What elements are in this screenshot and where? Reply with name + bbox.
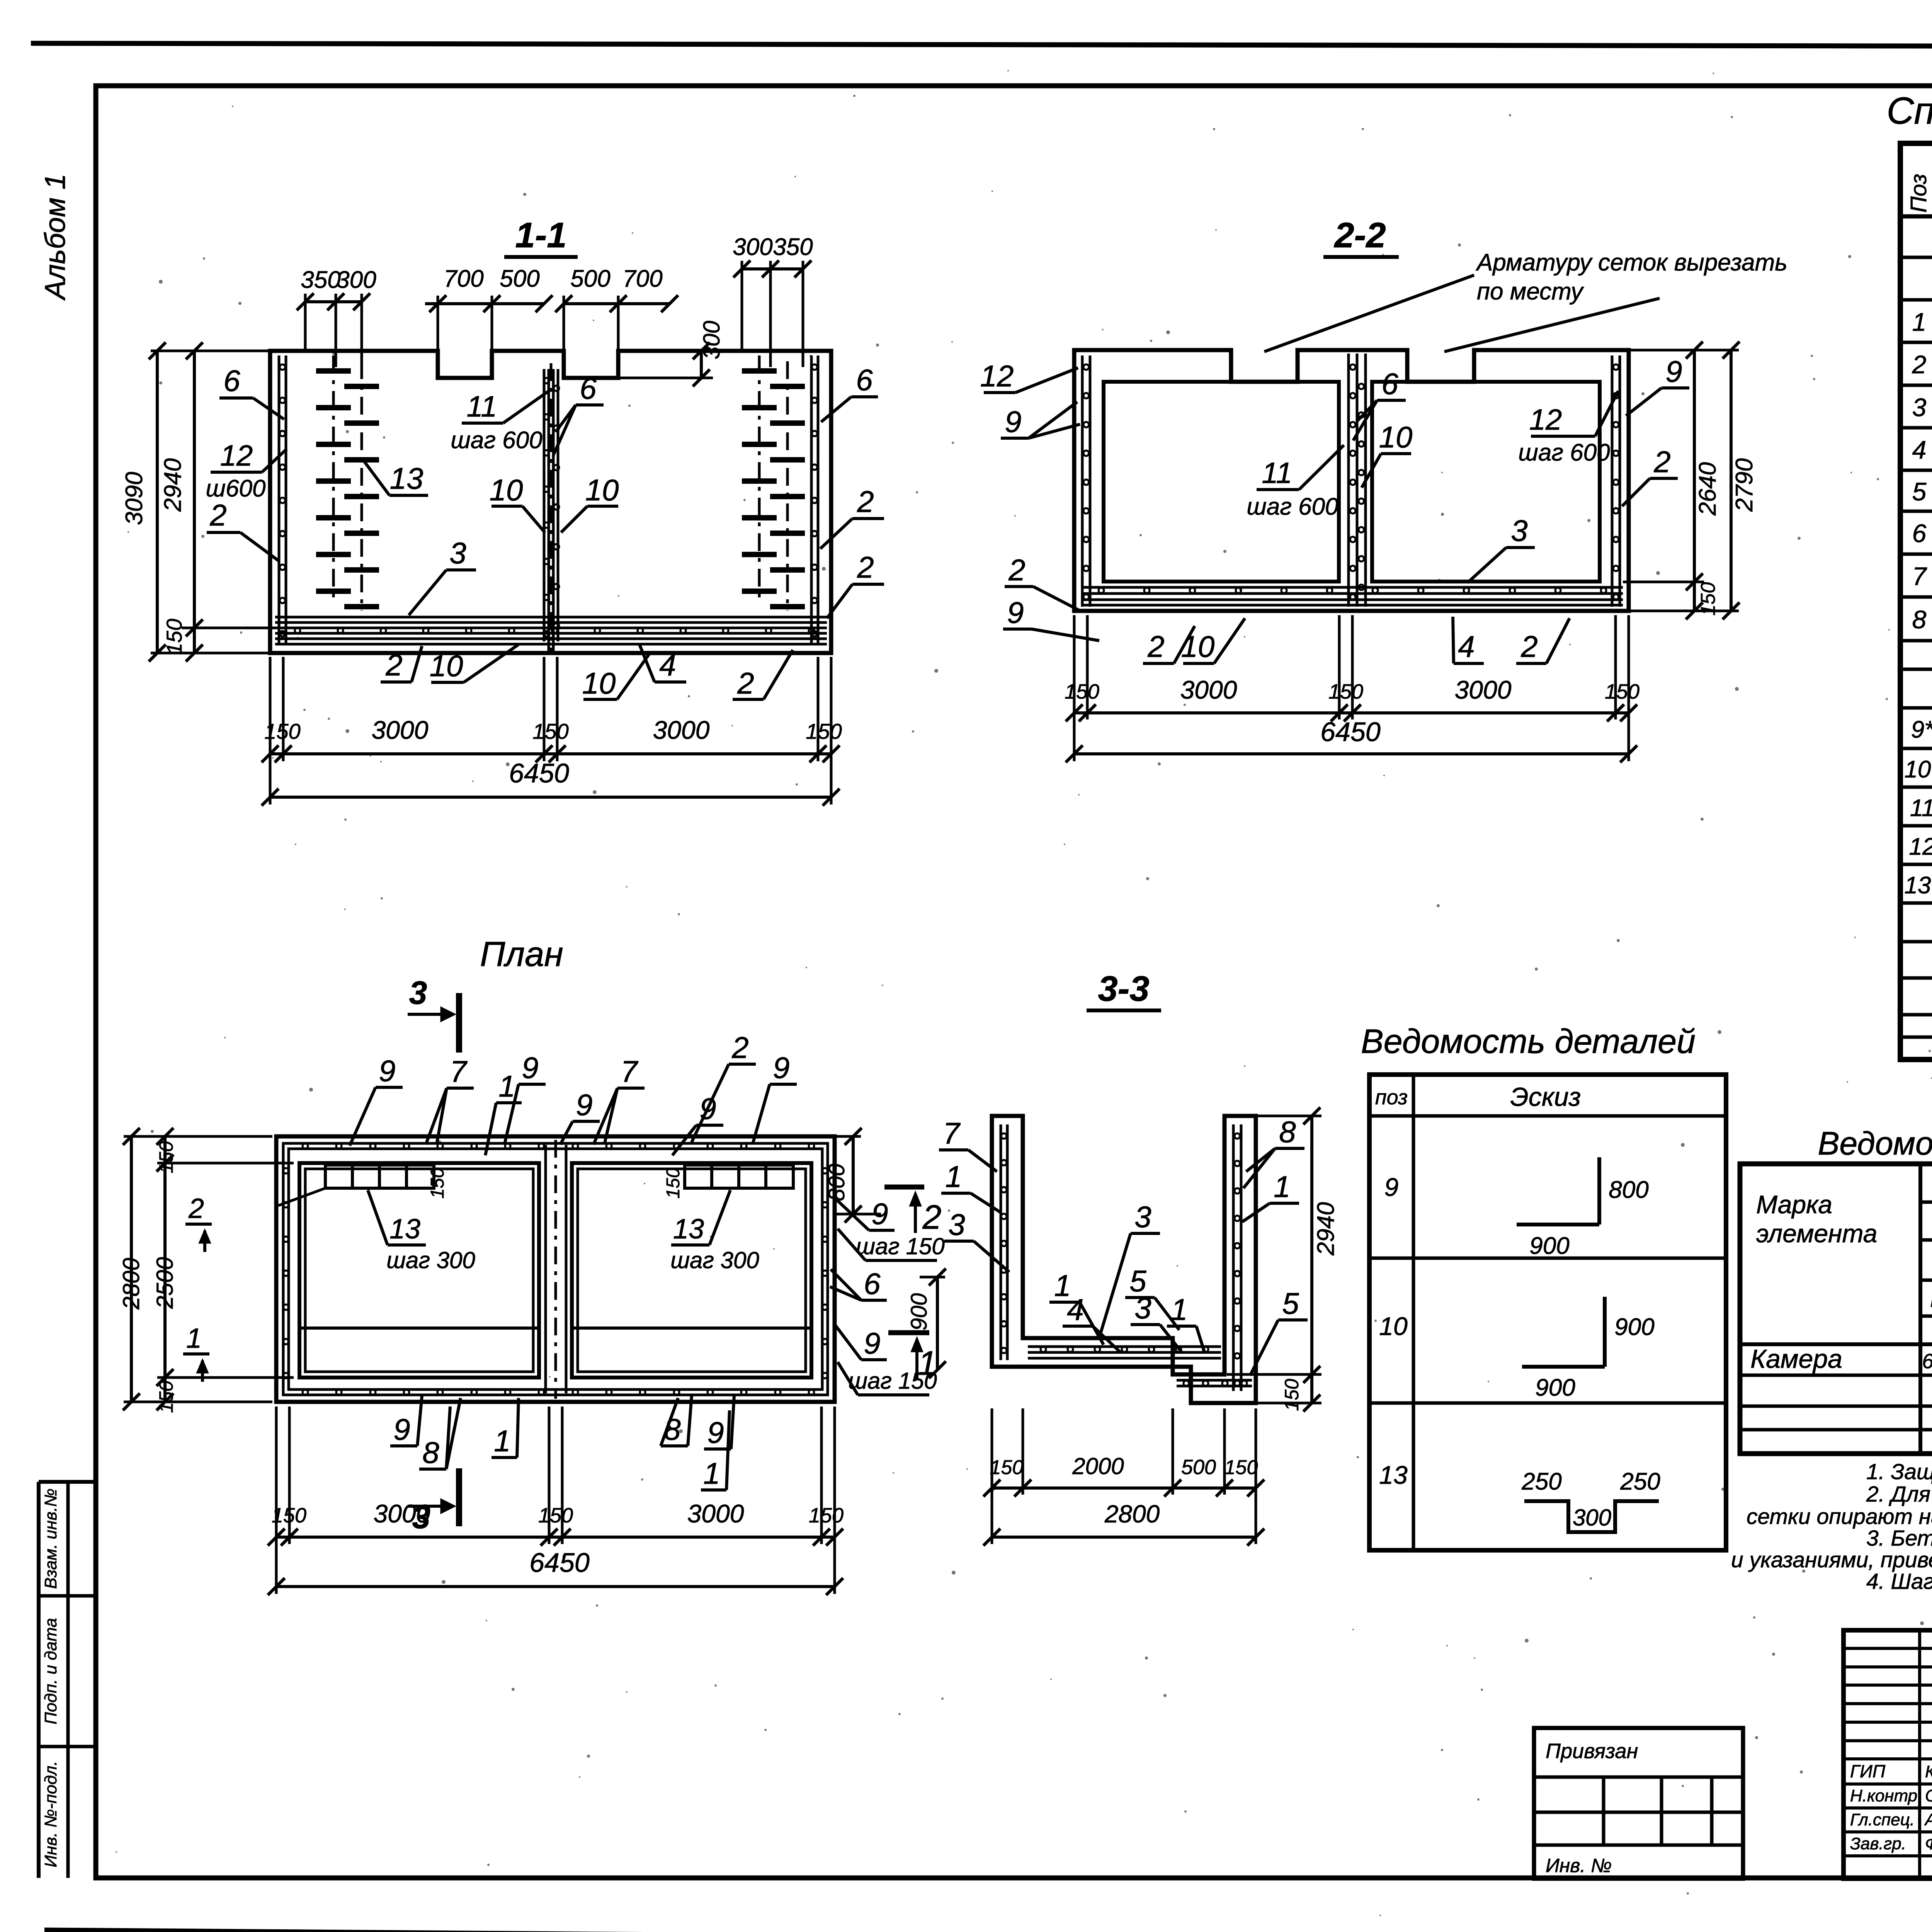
privyazan label [1546,1740,1638,1763]
specification table grid [1900,143,1932,1060]
svg-text:250: 250 [1521,1468,1561,1495]
svg-text:2: 2 [857,485,874,519]
callout 1-1 6 mid [553,371,604,455]
section 1-1 title [504,216,578,257]
svg-text:Взам. инв.№: Взам. инв.№ [41,1488,60,1589]
svg-text:2: 2 [1147,629,1164,663]
dim 2-2 bottom [1065,615,1639,762]
plan section3 marker top [408,975,459,1053]
svg-text:3: 3 [1511,514,1527,548]
callout 2-2 11 shag600 [1247,445,1344,520]
spec detail row 13* [1904,872,1932,899]
svg-text:7: 7 [621,1054,638,1088]
svg-text:5: 5 [1912,477,1927,506]
svg-text:300: 300 [733,234,772,260]
svg-text:6450: 6450 [509,758,569,788]
signature table grid [1844,1630,1932,1879]
plan marker 2 left [185,1193,212,1252]
callout 1-1 4 bottom [639,645,686,682]
svg-text:900: 900 [906,1293,932,1331]
svg-text:250: 250 [1620,1468,1660,1495]
callout 3-3 4 [1063,1293,1121,1352]
dim 1-1 left verticals [121,342,275,662]
callout 3-3 1 bot1 [1049,1269,1104,1345]
svg-text:6: 6 [856,363,873,397]
callout 3-3 5 mid [1125,1264,1179,1330]
svg-text:шаг 600: шаг 600 [1247,493,1338,520]
svg-text:Н.контр: Н.контр [1850,1786,1917,1805]
svg-text:2: 2 [1653,445,1670,479]
steel table grid [1740,1164,1932,1454]
spec item row 5 [1912,474,1932,507]
svg-text:12: 12 [1529,403,1562,436]
sig row Nkontr [1850,1786,1932,1805]
plan right dim 800 [824,1128,881,1223]
svg-text:9: 9 [707,1415,724,1449]
svg-text:10: 10 [582,666,616,700]
svg-text:2790: 2790 [1731,458,1758,512]
svg-text:2: 2 [209,498,226,532]
svg-text:Камера: Камера [1750,1344,1842,1374]
svg-text:300: 300 [336,267,376,293]
section 2-2 title [1323,216,1399,257]
callout plan 9 b [505,1051,546,1144]
plan chamber1 water line [299,1327,539,1330]
svg-text:4. Шаг стержней, кроме ого: 4. Шаг стержней, кроме оговоренных, 200м… [1866,1569,1932,1594]
svg-text:150: 150 [155,1141,177,1173]
dim plan bottom [268,1406,844,1595]
svg-text:300: 300 [1573,1505,1611,1531]
svg-text:2: 2 [922,1198,942,1236]
svg-text:7: 7 [450,1054,468,1088]
svg-text:шаг 150: шаг 150 [848,1368,937,1394]
svg-text:Арматуру сеток вырезать: Арматуру сеток вырезать [1475,249,1787,276]
svg-text:1: 1 [1912,308,1927,336]
svg-text:10: 10 [1379,1312,1408,1340]
svg-text:9: 9 [1007,595,1024,629]
svg-text:2: 2 [731,1031,748,1065]
svg-text:13: 13 [1379,1461,1408,1489]
callout 2-2 2 right [1622,445,1678,506]
svg-text:10: 10 [585,473,619,507]
spec item row 3 [1912,390,1932,422]
spec mesh row 6 [1912,512,1932,555]
note line 6 [1866,1569,1932,1594]
section 2-2 note leaders [1264,275,1660,352]
section 3-3 right wall mesh [1233,1124,1241,1391]
svg-text:150: 150 [1281,1379,1303,1411]
plan marker 1 right [888,1333,937,1382]
svg-text:3: 3 [1134,1200,1151,1234]
callout plan 9 g [704,1396,734,1449]
svg-text:8: 8 [422,1435,439,1469]
svg-text:2: 2 [1912,350,1927,379]
callout 2-2 9 low [1003,595,1099,641]
svg-text:Инв. №-подл.: Инв. №-подл. [41,1761,60,1867]
svg-text:1: 1 [498,1069,515,1103]
svg-text:3-3: 3-3 [1098,969,1150,1009]
dim 3-3 bottom [983,1408,1264,1546]
svg-text:3090: 3090 [121,472,148,525]
svg-text:6: 6 [1912,519,1927,548]
section 1-1 slab mesh [275,617,827,644]
svg-text:150: 150 [162,619,186,655]
svg-text:Зав.гр.: Зав.гр. [1850,1834,1906,1853]
svg-text:1-1: 1-1 [515,216,567,255]
svg-text:поз: поз [1375,1086,1408,1109]
svg-text:9: 9 [522,1051,538,1085]
stamp text Подп. и дата [41,1618,60,1724]
callout 2-2 4 bottom [1453,617,1484,663]
svg-text:4: 4 [1912,435,1927,464]
plan chamber1 rect [299,1163,539,1378]
spec mesh row 8 [1912,598,1932,641]
sig row GIP [1850,1761,1932,1781]
callout plan 1 a [485,1069,522,1155]
section 1-1 left bars [316,355,379,611]
detail pos 10 label [1379,1312,1408,1340]
callout plan 2 a [692,1031,756,1142]
svg-text:шаг 150: шаг 150 [856,1233,945,1259]
section 2-2 note text [1475,249,1787,305]
note line 1 [1866,1459,1932,1484]
svg-text:10: 10 [1181,629,1215,663]
detail pos 13 label [1379,1461,1408,1489]
svg-text:Алексеев: Алексеев [1924,1810,1932,1829]
callout 1-1 2 left [207,498,279,561]
section 2-2 cavity left [1104,382,1339,582]
svg-text:10: 10 [1379,420,1413,454]
svg-text:13*: 13* [1904,872,1932,899]
callout 1-1 2 right1 [820,485,884,549]
plan middle wall lines [546,1140,566,1399]
svg-text:Гл.спец.: Гл.спец. [1850,1810,1915,1829]
dim 1-1 350 300 [297,267,376,367]
svg-text:по месту: по месту [1477,278,1584,305]
callout 2-2 10 [1362,420,1412,488]
svg-text:12: 12 [1909,833,1932,860]
svg-text:1: 1 [703,1456,720,1490]
svg-text:Ведомость расхода стали: Ведомость расхода стали на элемент, кг [1818,1125,1932,1162]
svg-text:150: 150 [1697,582,1719,616]
svg-text:2800: 2800 [1104,1500,1160,1528]
section 1-1 concrete outline [270,351,831,653]
svg-text:900: 900 [1535,1374,1575,1401]
svg-text:10: 10 [490,473,523,507]
svg-text:9: 9 [1005,405,1021,439]
svg-text:элемента: элемента [1756,1219,1877,1248]
callout plan 7 b [594,1054,645,1145]
callout 3-3 1 left [941,1160,1001,1213]
callout 1-1 6 right [821,363,878,422]
dim 1-1 300 notch [618,321,724,386]
svg-text:2-2: 2-2 [1334,216,1386,255]
plan mesh rect inner [289,1149,822,1389]
svg-text:9: 9 [379,1054,395,1088]
svg-text:9: 9 [393,1412,410,1446]
svg-text:11: 11 [467,390,497,423]
plan section3 marker bottom [408,1468,459,1535]
svg-text:2000: 2000 [1072,1453,1124,1479]
svg-text:3000: 3000 [653,716,710,744]
callout plan 9 c [560,1088,600,1145]
callout 2-2 10 bottom [1181,618,1245,663]
callout 3-3 1 right [1242,1170,1299,1222]
svg-text:12: 12 [220,439,253,472]
svg-text:ГОСТ5781-82: ГОСТ5781-82 [1930,1286,1932,1312]
steel row Камера [1750,1344,1932,1374]
svg-text:сетки опирают на бетонные су: сетки опирают на бетонные сухарики, укла… [1747,1504,1932,1529]
svg-text:Коротненко: Коротненко [1925,1762,1932,1781]
svg-text:7: 7 [1912,562,1927,590]
svg-text:11: 11 [1910,795,1932,821]
svg-text:8: 8 [1279,1115,1296,1149]
svg-text:350: 350 [301,267,340,293]
callout plan 9 a [350,1054,403,1146]
svg-text:900: 900 [1614,1314,1654,1340]
section 2-2 right wall mesh [1612,355,1620,607]
svg-text:150: 150 [1225,1456,1258,1479]
dim 1-1 bottom [262,657,842,806]
svg-text:800: 800 [824,1164,849,1201]
svg-text:2: 2 [1520,629,1537,663]
spec detail row 9* [1911,716,1932,743]
dim 1-1 700 500 500 700 [425,265,678,350]
detail 9 sketch [1517,1157,1649,1259]
section 3-3 left wall mesh [1001,1124,1007,1360]
section 2-2 middle wall mesh [1349,354,1366,607]
sig row Glspec [1850,1810,1932,1829]
section 2-2 left wall mesh [1082,355,1090,607]
stamp text Инв.№ подл. [41,1761,60,1867]
callout 2-2 9 right [1626,354,1689,416]
svg-text:Ведомость деталей: Ведомость деталей [1361,1022,1696,1060]
svg-text:900: 900 [1529,1233,1569,1259]
callout plan 7 a [426,1054,474,1145]
callout 2-2 2 bottom [1143,626,1195,663]
callout plan 9 f [390,1396,422,1446]
callout 3-3 3 mid [1100,1200,1160,1336]
svg-text:Поз: Поз [1906,174,1931,213]
section 3-3 slab mesh [1028,1347,1252,1386]
svg-text:2: 2 [857,550,874,584]
svg-text:150: 150 [264,719,300,743]
svg-text:Инв. №: Инв. № [1546,1855,1612,1876]
svg-text:*): *) [1930,1069,1932,1097]
callout 3-3 3 left [944,1207,1009,1272]
callout 1-1 2 bottom [381,646,422,682]
svg-text:3000: 3000 [374,1499,430,1528]
callout 2-2 3 [1468,514,1535,583]
plan outer rect [276,1136,835,1402]
plan title [480,935,563,974]
svg-text:Привязан: Привязан [1546,1740,1638,1763]
svg-text:350: 350 [773,234,813,260]
svg-text:3000: 3000 [687,1499,744,1528]
spec detail row 12 [1909,833,1932,860]
callout plan 9 r2 [835,1325,887,1360]
svg-text:2: 2 [737,666,754,700]
sheet bottom edge line [44,1930,1932,1932]
callout plan 6 r [830,1267,887,1301]
svg-text:10: 10 [430,649,463,683]
steel hdr GOST left [1930,1286,1932,1312]
spec header Поз [1906,174,1931,213]
callout plan 8 b [661,1396,692,1446]
svg-text:9: 9 [1665,354,1682,388]
svg-text:150: 150 [272,1504,306,1527]
details hdr [1375,1082,1581,1112]
svg-text:150: 150 [990,1456,1024,1479]
svg-text:150: 150 [155,1381,177,1413]
plan chamber2 water line [572,1327,811,1330]
svg-text:638,6: 638,6 [1922,1350,1932,1373]
callout 2-2 12 [980,359,1078,393]
callout 3-3 8 [1243,1115,1304,1188]
svg-text:2800: 2800 [118,1258,144,1310]
callout 3-3 3 bot [1131,1291,1182,1353]
callout 2-2 12 shag600 [1518,391,1618,466]
svg-text:3: 3 [449,536,466,570]
svg-text:8: 8 [1912,605,1927,634]
svg-text:13: 13 [390,461,423,495]
callout 1-1 11 shag600 [451,390,549,454]
svg-text:4: 4 [1067,1293,1083,1327]
callout plan 9 d [672,1092,723,1155]
dim plan left verticals [118,1128,294,1413]
spec mesh row 7 [1912,554,1932,598]
svg-text:700: 700 [622,265,662,292]
svg-text:Спецификация к армированию: Спецификация к армированию [1887,89,1932,132]
note line 4 [1866,1526,1932,1551]
section 2-2 cavity right [1372,382,1600,582]
svg-text:2940: 2940 [1313,1202,1339,1256]
svg-text:7: 7 [943,1116,961,1150]
svg-text:шаг 600: шаг 600 [1518,439,1610,466]
svg-text:3. Бетонирование днища про: 3. Бетонирование днища производить в соо… [1866,1526,1932,1551]
svg-text:Эскиз: Эскиз [1510,1082,1581,1112]
svg-text:150: 150 [1065,680,1099,703]
spec item row 4 [1912,433,1932,465]
svg-text:ГИП: ГИП [1850,1761,1886,1781]
callout plan 9 e [753,1051,797,1144]
sheet top edge line [31,43,1932,47]
svg-text:11: 11 [1262,457,1293,490]
details table grid [1369,1075,1726,1550]
detail 13 sketch [1521,1468,1660,1532]
callout 2-2 6 [1353,367,1406,440]
spec detail row 10* [1904,756,1932,783]
svg-text:700: 700 [444,265,483,292]
detail pos 9 label [1384,1173,1399,1201]
section 3-3 title [1087,969,1161,1010]
svg-text:1: 1 [1171,1293,1187,1327]
svg-text:1. Защитный слой бетона п: 1. Защитный слой бетона принят 25мм [1866,1459,1932,1484]
plan label shag150 r2 [838,1362,937,1395]
svg-text:150: 150 [1605,680,1639,703]
plan right dim 900 [906,1269,946,1378]
callout 3-3 1 bot2 [1167,1293,1205,1353]
svg-text:3000: 3000 [1180,675,1237,704]
svg-text:9: 9 [699,1092,716,1126]
svg-text:3000: 3000 [1455,675,1512,704]
svg-text:1: 1 [945,1160,962,1194]
svg-text:150: 150 [538,1504,573,1527]
svg-text:4: 4 [659,648,676,682]
spec detail row 11 [1910,795,1932,821]
callout 2-2 2 left [1005,553,1081,611]
svg-text:1: 1 [494,1424,510,1458]
note line 5 [1731,1548,1932,1572]
svg-text:2500: 2500 [152,1257,178,1309]
svg-text:800: 800 [1609,1177,1648,1203]
svg-text:2940: 2940 [160,458,186,512]
callout 1-1 12 sh600 [206,439,287,502]
callout 1-1 3 [409,536,476,615]
callout 1-1 13 left [362,459,428,495]
note line 3 [1747,1504,1932,1529]
svg-text:4: 4 [1458,629,1475,663]
svg-text:6450: 6450 [1320,717,1381,747]
callout plan 13 shag300 left [368,1190,475,1273]
svg-text:2: 2 [188,1193,204,1224]
svg-text:6: 6 [864,1267,881,1301]
inv number label [1546,1855,1612,1876]
svg-text:150: 150 [663,1168,684,1199]
svg-text:шаг 300: шаг 300 [386,1247,475,1273]
section 1-1 left wall mesh [279,355,286,643]
callout 1-1 6 left [219,364,284,419]
spec item row 2 [1912,347,1932,379]
section 1-1 right bars [742,355,805,611]
album label Альбом 1 [39,173,71,301]
svg-text:2. Для фиксации арматуры: 2. Для фиксации арматуры и выдержки разм… [1866,1482,1932,1507]
plan grid1 [278,1165,448,1206]
callout plan 1 c [701,1410,730,1490]
dim 1-1 300 350 [733,234,813,367]
callout 1-1 10 bottom [430,645,519,683]
svg-text:шаг 300: шаг 300 [670,1247,759,1273]
dim 3-3 right verticals [1227,1107,1339,1412]
callout 1-1 10 bottom2 [582,653,650,700]
section 3-3 outline [992,1116,1256,1403]
svg-text:9: 9 [864,1326,880,1360]
svg-text:Сиганова: Сиганова [1925,1786,1932,1805]
callout 1-1 2 bottom2 [733,650,793,700]
callout 1-1 10 midright [561,473,619,532]
svg-text:Марка: Марка [1756,1190,1832,1219]
svg-text:Фролова: Фролова [1925,1834,1932,1853]
spec footnote [1930,1069,1932,1106]
svg-text:150: 150 [806,719,842,743]
svg-text:6: 6 [1381,367,1398,401]
svg-text:5: 5 [1282,1286,1299,1320]
svg-text:12: 12 [980,359,1014,393]
svg-text:9: 9 [576,1088,592,1122]
section 1-1 right wall mesh [811,355,818,643]
svg-text:10*: 10* [1904,756,1932,783]
callout plan 8 a [419,1398,461,1469]
svg-text:500: 500 [500,265,539,292]
callout 3-3 5 right [1250,1286,1308,1376]
svg-text:150: 150 [809,1504,844,1527]
plan label shag150 r1 [838,1229,945,1260]
svg-text:500: 500 [1181,1456,1216,1479]
plan mesh dots [283,1143,828,1395]
svg-text:2: 2 [1008,553,1025,587]
callout 1-1 10 midleft [490,473,545,532]
stamp text Взам.инв.№ [41,1488,60,1589]
